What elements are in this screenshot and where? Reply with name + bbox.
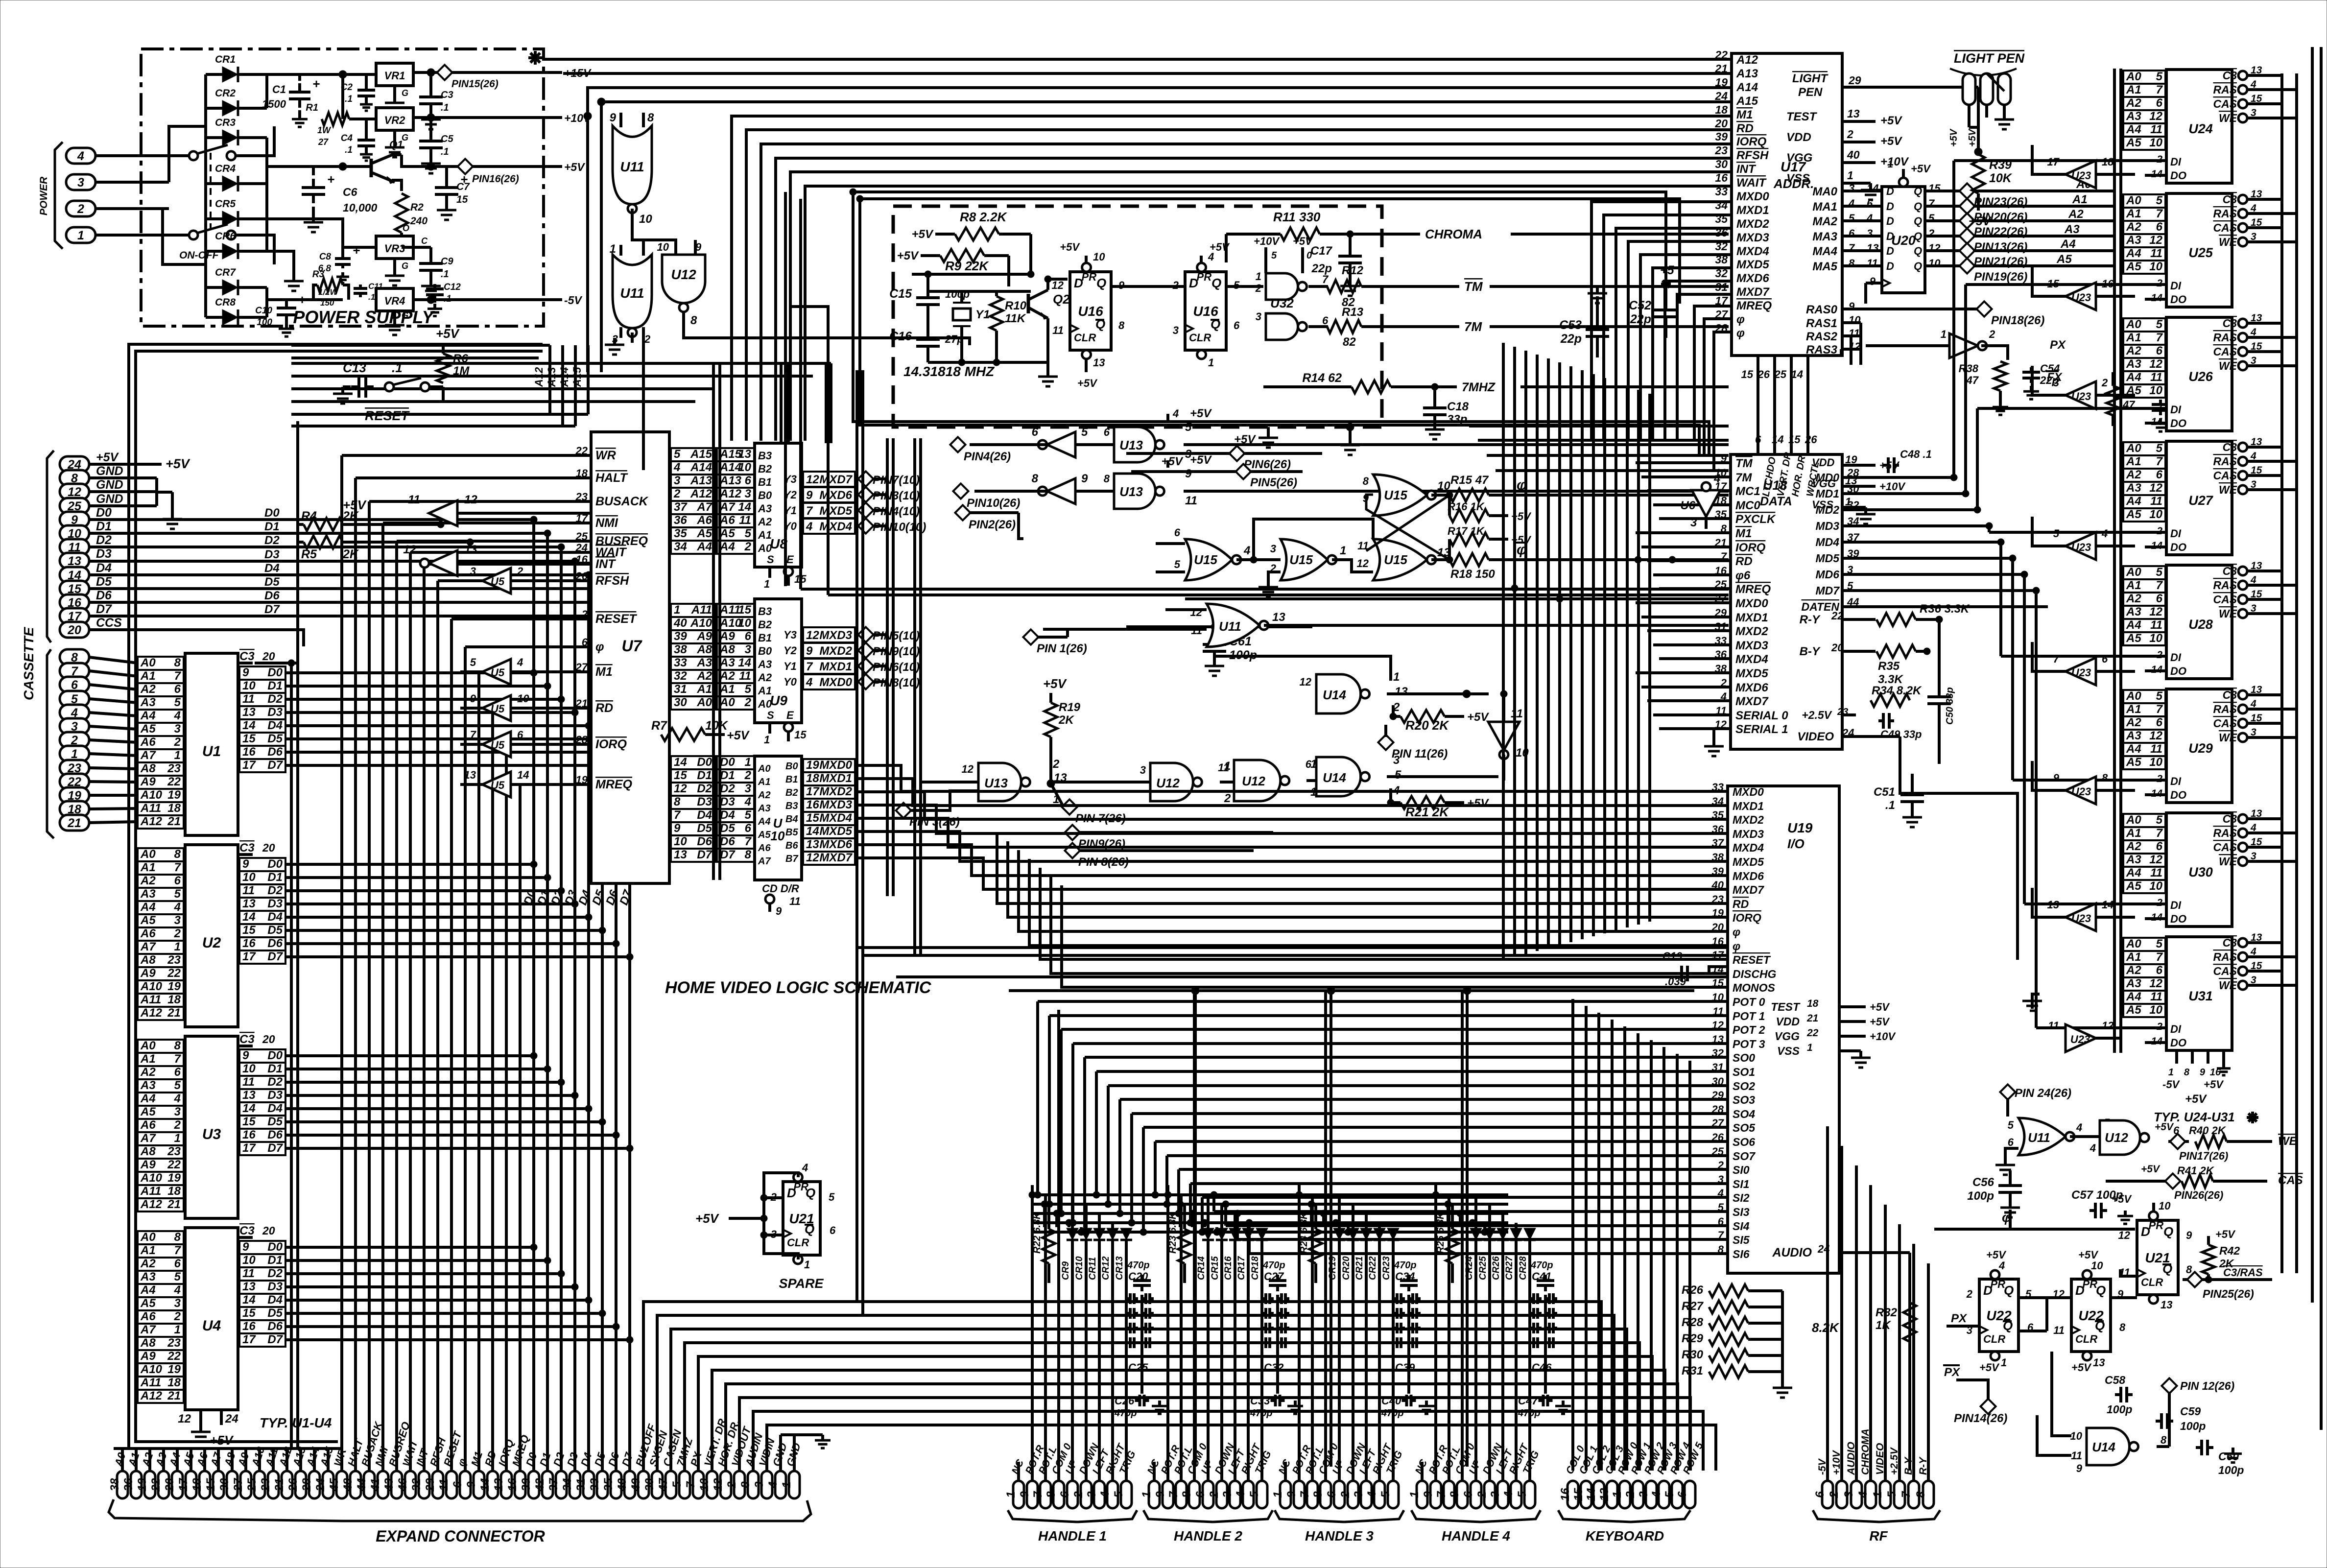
svg-text:VSS: VSS (1786, 172, 1810, 185)
svg-text:9: 9 (242, 1240, 249, 1254)
svg-text:15: 15 (242, 1307, 256, 1320)
svg-text:A5: A5 (719, 527, 735, 540)
svg-text:D: D (1886, 260, 1894, 272)
wire R8/R9 node to Q2 (1029, 234, 1032, 274)
junction U15 outputs (1446, 492, 1453, 499)
wire MXD0 out (855, 764, 887, 767)
wire expand pin D4 stub (587, 1457, 590, 1471)
wire U2 D2 to data bus (285, 889, 561, 892)
wire R11 to CHROMA (1320, 233, 1420, 236)
svg-text:13: 13 (242, 1089, 256, 1102)
svg-text:14: 14 (1867, 182, 1878, 194)
wire U23 output left (2032, 761, 2066, 790)
wire +5V U16 PR (1085, 256, 1088, 262)
svg-text:A5: A5 (2126, 756, 2141, 769)
svg-text:6: 6 (582, 636, 588, 648)
svg-text:16: 16 (242, 745, 256, 759)
wire Q2 collector to U16 (1048, 279, 1068, 290)
wire light pen leads (1968, 105, 1971, 127)
svg-text:R29: R29 (1682, 1332, 1704, 1345)
svg-text:TYP. U1-U4: TYP. U1-U4 (260, 1415, 332, 1430)
svg-text:1: 1 (1888, 159, 1893, 170)
svg-text:38: 38 (1715, 663, 1727, 675)
svg-text:1: 1 (1004, 1491, 1018, 1497)
svg-text:RAS3: RAS3 (1806, 343, 1838, 356)
wire MXD5 to U17 (1653, 268, 1732, 441)
ground VR3 (393, 259, 396, 269)
expand connector pin 16 (MREQ) (515, 1471, 525, 1498)
wire power pin to switch area (95, 154, 169, 157)
svg-text:2: 2 (174, 1310, 181, 1323)
wire U18 pin 38 feeder (1636, 671, 1731, 674)
svg-text:MD3: MD3 (1815, 520, 1839, 532)
wire U13b out right (1184, 490, 1729, 493)
wire PIN24 (2006, 1098, 2009, 1117)
wire U11 inputs (1165, 608, 1207, 611)
cassette pin 15 (D5) (60, 581, 89, 596)
U7 pin row 33 A3 (671, 657, 715, 670)
svg-text:1: 1 (1871, 1491, 1884, 1497)
svg-text:A3: A3 (140, 887, 156, 901)
svg-text:A1: A1 (758, 685, 772, 697)
svg-text:17: 17 (2047, 156, 2060, 168)
flip-flop U21 (right) (2137, 1220, 2178, 1295)
svg-text:A3: A3 (2064, 223, 2080, 236)
resistor R18 150 (1449, 553, 1489, 566)
svg-text:2: 2 (1847, 128, 1853, 141)
svg-text:3: 3 (745, 487, 752, 500)
U7 pin row 38 A8 (671, 643, 715, 657)
svg-text:U9: U9 (770, 693, 787, 708)
svg-text:I/O: I/O (1787, 836, 1805, 851)
svg-text:6: 6 (174, 874, 181, 887)
svg-text:18: 18 (1715, 103, 1728, 116)
svg-text:11: 11 (739, 514, 751, 527)
wire A0 stub to edge bus (136, 1045, 138, 1047)
svg-text:6: 6 (2156, 96, 2163, 110)
wire expand pin GND stub (779, 1457, 782, 1471)
svg-text:.1: .1 (441, 102, 449, 113)
custom data chip U18 (1731, 454, 1842, 749)
wire CR28 top lead (1528, 1228, 1531, 1232)
expand connector pin 38 (A0) (117, 1471, 128, 1498)
wire A0 cassette to U1 (89, 657, 138, 663)
svg-text:CLR: CLR (1983, 1333, 2005, 1345)
svg-text:A8: A8 (696, 643, 712, 656)
junction matrix column 15 (1432, 1191, 1439, 1198)
svg-text:C40: C40 (1381, 1395, 1401, 1407)
wire RF pin B-Y riser (1912, 1244, 1915, 1480)
wire CR5 leads (206, 217, 222, 220)
svg-text:3: 3 (674, 474, 681, 487)
svg-text:A2: A2 (2126, 716, 2141, 729)
handle 2 capacitor grid (1262, 1297, 1266, 1300)
U4 chip-select pin C3/20 (238, 1236, 253, 1239)
custom I/O chip U19 (1728, 786, 1839, 1273)
svg-text:D3: D3 (267, 1280, 283, 1293)
wire WE to rail (2247, 860, 2297, 863)
buffer input row A5 5 (717, 527, 754, 541)
wire A0 stub to edge bus (136, 853, 138, 856)
star small C52 (1661, 279, 1671, 289)
svg-text:9: 9 (806, 489, 813, 502)
svg-text:CLR: CLR (2141, 1276, 2163, 1288)
wire U18 pin 33 feeder (1653, 643, 1731, 646)
svg-text:DI: DI (2170, 651, 2182, 664)
resistor R10 11K (990, 296, 1003, 331)
svg-text:11: 11 (1511, 707, 1523, 720)
wire matrix column 10 (1298, 1195, 1301, 1227)
svg-text:U5: U5 (491, 666, 505, 679)
star TYP (2247, 1112, 2258, 1123)
svg-text:4: 4 (2076, 1121, 2082, 1134)
svg-text:MXD3: MXD3 (1735, 639, 1768, 652)
svg-text:Q: Q (1914, 245, 1922, 257)
wire U1 chip select net (255, 662, 298, 665)
svg-text:5: 5 (1663, 1491, 1676, 1498)
svg-text:+5V: +5V (436, 326, 460, 341)
pin marker PIN9(26) (1065, 825, 1080, 840)
svg-text:32: 32 (674, 669, 687, 683)
svg-text:12: 12 (2149, 357, 2162, 371)
expand connector pin 41 (NMI) (378, 1471, 388, 1498)
svg-text:8: 8 (1363, 475, 1369, 487)
svg-text:A0: A0 (2126, 442, 2141, 455)
svg-text:A12: A12 (533, 367, 545, 387)
wire expand VIDOUT vertical (739, 1398, 1690, 1471)
svg-text:+5: +5 (1660, 263, 1675, 277)
svg-text:8: 8 (174, 1039, 181, 1052)
svg-text:D7: D7 (267, 1141, 283, 1155)
svg-text:C9: C9 (441, 256, 453, 267)
svg-text:+5V: +5V (210, 1433, 235, 1448)
wire expand pin VERT. DR. stub (711, 1457, 713, 1471)
wire matrix column 19 (1483, 1227, 1486, 1232)
wire data bus D1 vertical to expand connector (546, 533, 549, 1471)
svg-text:R15 47: R15 47 (1450, 474, 1489, 487)
U1 address pin A2/6 (138, 683, 184, 696)
expand connector pin 4 (GND) (775, 1471, 786, 1498)
svg-text:470p: 470p (1530, 1260, 1553, 1271)
wire matrix column 2 (1055, 1213, 1058, 1227)
svg-text:U15: U15 (1289, 552, 1313, 567)
wire matrix column 7 (1191, 1213, 1194, 1227)
svg-text:15: 15 (204, 1478, 217, 1491)
resistor R13 82 (1327, 320, 1361, 333)
svg-text:4: 4 (806, 676, 812, 689)
svg-text:1: 1 (1140, 1491, 1153, 1497)
wire MXD4 out (855, 817, 887, 820)
U27 pin A0 5 (2123, 442, 2165, 455)
svg-text:A7: A7 (140, 1132, 156, 1145)
svg-text:RAS: RAS (2213, 331, 2237, 344)
svg-text:RAS: RAS (2213, 950, 2237, 963)
expand connector pin 12 (HOR. DR.) (720, 1471, 731, 1498)
wire A8 stub to edge bus (136, 959, 138, 962)
handle 4 connector pin 4 (RIGHT) (1511, 1481, 1521, 1508)
svg-text:A2: A2 (758, 671, 772, 684)
svg-text:+5V: +5V (1162, 455, 1184, 468)
wire A6 stub to edge bus (136, 1124, 138, 1127)
handle 2 pin risers (1153, 1462, 1156, 1480)
resistor R5 2K (304, 536, 343, 548)
U2 address pin A11/18 (138, 994, 184, 1007)
U4 address pin A5/3 (138, 1297, 184, 1310)
wire A4 line to RAM bus (1973, 249, 2114, 252)
wire R5 (298, 541, 304, 544)
wire CR23 top lead (1392, 1228, 1395, 1232)
svg-text:A12: A12 (140, 1006, 163, 1020)
svg-text:+5V: +5V (1911, 163, 1931, 175)
svg-text:1: 1 (1271, 1491, 1284, 1497)
capacitor C57 100p (2090, 1209, 2095, 1212)
svg-text:MXD3: MXD3 (819, 629, 852, 642)
U2 chip-select pin C3/20 (238, 853, 253, 856)
svg-text:A1: A1 (696, 683, 712, 696)
wire U5 input from U7 (511, 743, 591, 746)
svg-text:10: 10 (771, 829, 785, 843)
wire U23 input right (2096, 295, 2135, 298)
svg-text:D2: D2 (720, 782, 735, 795)
svg-text:4: 4 (673, 461, 680, 474)
U17 bottom pin 26 (1773, 356, 1776, 382)
wire expand pin GND stub (793, 1457, 796, 1471)
svg-text:5: 5 (174, 887, 181, 901)
svg-text:3: 3 (745, 782, 752, 795)
U4 address pin A7/1 (138, 1324, 184, 1337)
svg-text:A4: A4 (719, 540, 735, 553)
wire MD4 right (1842, 541, 2001, 544)
handle 4 connector pin 7 (POT.L) (1444, 1481, 1454, 1508)
wire U18 feeder 3 (1496, 469, 1729, 472)
svg-text:R7: R7 (651, 719, 667, 733)
wire U14a node up (1214, 656, 1391, 681)
svg-text:Q: Q (1914, 215, 1922, 227)
svg-text:HALT: HALT (595, 471, 629, 485)
svg-text:D3: D3 (720, 795, 735, 808)
wire MXD5 out (855, 830, 887, 833)
svg-text:MXD7: MXD7 (819, 473, 853, 486)
svg-text:6: 6 (2156, 468, 2163, 481)
expand connector pin 23 (A11) (268, 1471, 279, 1498)
svg-text:D2: D2 (267, 692, 283, 706)
cassette pin 18 (A11) (60, 801, 89, 817)
svg-text:R41 2K: R41 2K (2177, 1164, 2215, 1177)
handle 1 capacitor grid (1126, 1297, 1130, 1300)
wire reset net (429, 385, 443, 388)
svg-text:A9: A9 (140, 1158, 156, 1171)
svg-text:7: 7 (1031, 1491, 1045, 1498)
svg-text:5: 5 (174, 1270, 181, 1283)
wire cap grid stem (1276, 1295, 1279, 1394)
svg-text:WE: WE (2219, 607, 2237, 620)
svg-text:U31: U31 (2188, 989, 2213, 1003)
svg-text:13: 13 (806, 838, 819, 851)
junction D5 (599, 585, 606, 592)
U11 output pin 10 (631, 209, 634, 230)
MXD distribution verticals right (886, 438, 889, 896)
svg-text:12: 12 (2149, 605, 2162, 618)
svg-text:CAS: CAS (2213, 469, 2237, 482)
wire U17 bottom pins to U18 top (1757, 382, 1759, 454)
svg-text:PIN7(10): PIN7(10) (873, 474, 920, 487)
wire WE to rail (2247, 984, 2297, 987)
svg-text:DO: DO (2170, 913, 2186, 925)
svg-text:M1: M1 (1735, 527, 1752, 540)
cassette pin 20 (CCS) (60, 622, 89, 638)
wire A8 cassette to U1 (89, 768, 138, 769)
svg-text:25: 25 (1714, 578, 1727, 591)
wire matrix row 15 corner drop (1212, 1195, 1215, 1212)
expand connector pin 37 (D2) (556, 1471, 567, 1498)
wire central bus vertical 4 (1547, 358, 1550, 948)
U1 address pin A3/5 (138, 696, 184, 710)
svg-text:A3: A3 (2126, 481, 2141, 495)
junction VR2 out (427, 114, 435, 121)
svg-text:C48 .1: C48 .1 (1900, 448, 1932, 460)
svg-text:+: + (312, 76, 320, 91)
svg-text:27: 27 (232, 1477, 245, 1492)
wire matrix row 4 corner drop (1083, 1057, 1086, 1232)
capacitor C8 6.8 (341, 255, 344, 259)
svg-text:U13: U13 (1119, 438, 1143, 452)
U1 address pin A11/18 (138, 802, 184, 815)
svg-text:MD6: MD6 (1815, 568, 1839, 581)
svg-text:A0: A0 (140, 1039, 156, 1052)
wire CAS to rail (2247, 474, 2282, 477)
wire CR12 bottom lead (1111, 1240, 1114, 1480)
wire RAS to rail (2247, 460, 2297, 463)
svg-text:4: 4 (1848, 197, 1854, 210)
svg-text:4: 4 (174, 1283, 181, 1297)
svg-text:10: 10 (674, 835, 687, 848)
junction matrix column 4 (1078, 1229, 1085, 1235)
wire matrix row 18 corner drop (1248, 1223, 1251, 1254)
svg-text:U32: U32 (1270, 296, 1294, 310)
svg-text:4: 4 (766, 1481, 780, 1488)
svg-text:6: 6 (1849, 227, 1855, 239)
wire U19 matrix row 23 (1132, 1112, 1728, 1115)
junction matrix column 14 (1345, 1229, 1352, 1235)
wire MXD5 to bus (855, 509, 887, 512)
wire U23 input right (2096, 670, 2135, 673)
wire expand pin A13 stub (299, 1457, 302, 1471)
wire RF pin CHROMA riser (1869, 1185, 1872, 1480)
svg-text:15: 15 (2047, 278, 2060, 290)
svg-text:MXD0: MXD0 (819, 676, 852, 689)
wire A5 stub to edge bus (136, 728, 138, 731)
wire matrix column 3 (1068, 1223, 1070, 1227)
memory chip U27 (2166, 441, 2232, 555)
handle 3 connector pin 6 (UP) (1334, 1481, 1345, 1508)
svg-text:4: 4 (1502, 1491, 1515, 1498)
svg-text:5: 5 (1185, 421, 1192, 434)
svg-text:TEST: TEST (1771, 1000, 1801, 1013)
capacitor C16 27p (926, 331, 929, 339)
U4 address pin A12/21 (138, 1390, 184, 1403)
wire U5 input from U7 (511, 707, 591, 710)
pin marker PIN3(10) (858, 487, 873, 502)
svg-text:D4: D4 (267, 1102, 283, 1115)
svg-text:+5V: +5V (2078, 1249, 2099, 1261)
expand connector pin 47 (CASEN) (665, 1471, 676, 1498)
wire keyboard riser 2 (1597, 1013, 1600, 1471)
svg-text:WE: WE (2219, 236, 2237, 248)
svg-text:14: 14 (242, 1293, 256, 1307)
resistor R35 3.3K (1876, 645, 1916, 658)
wire expand D6 riser (615, 1449, 617, 1457)
junction matrix row 10 (1152, 1191, 1159, 1198)
svg-text:22: 22 (1714, 48, 1728, 61)
pin marker PIN4(10) (858, 502, 873, 518)
junction matrix column 17 (1457, 1210, 1464, 1217)
wire cassette data D1 to data bus (89, 532, 547, 535)
RF bracket (1813, 1510, 1879, 1522)
wire U19 matrix row 33 (1249, 1252, 1728, 1255)
light pen bulb 1 (1963, 73, 1975, 105)
svg-text:MXD2: MXD2 (819, 644, 852, 658)
svg-text:C41: C41 (1532, 1270, 1551, 1283)
NOR gate U11 (lower, vertical) (613, 255, 652, 328)
svg-text:D0: D0 (267, 1240, 283, 1254)
svg-text:14: 14 (1585, 1488, 1598, 1501)
wire WE to rail (2247, 240, 2297, 243)
wire U19 matrix row 25 (1155, 1140, 1728, 1143)
wire A6 stub to edge bus (136, 1315, 138, 1318)
wire U23 input right (2096, 789, 2135, 792)
svg-text:11: 11 (2150, 618, 2162, 632)
svg-text:38: 38 (674, 643, 687, 656)
U4 address pin A9/22 (138, 1350, 184, 1363)
cassette pin 23 (A8) (60, 760, 89, 776)
svg-text:φ: φ (1736, 313, 1745, 326)
wire keyboard riser 0 (1571, 999, 1574, 1471)
U26 pin A5 10 (2123, 384, 2165, 398)
resistor R19 2K (1045, 703, 1057, 737)
wire U19 matrix row 28 (1190, 1182, 1728, 1185)
U3 address pin A3/5 (138, 1079, 184, 1093)
U7 pin row 2 A12 (671, 488, 715, 501)
svg-text:.1: .1 (368, 292, 375, 302)
wire R20 +5V (1445, 715, 1464, 718)
U31 power pin 9 (2207, 1050, 2209, 1064)
capacitor C15 100p (926, 289, 929, 298)
wire R26 join (1748, 1289, 1782, 1292)
svg-text:A9: A9 (140, 775, 156, 788)
handle 4 connector pin 2 (DOWN) (1484, 1481, 1495, 1508)
wire expand IORQ to U7 pin (506, 743, 591, 746)
expand connector pin 34 (D3) (570, 1471, 580, 1498)
svg-text:GND: GND (96, 492, 123, 506)
svg-text:MXD1: MXD1 (819, 660, 852, 673)
svg-text:2: 2 (1339, 1491, 1352, 1498)
svg-text:100p: 100p (2180, 1420, 2206, 1432)
svg-text:2: 2 (1072, 1491, 1085, 1498)
capacitor C40 470p (1402, 1399, 1407, 1402)
wire R30 join (1748, 1354, 1782, 1357)
NAND gate U12 (third) (1234, 760, 1281, 801)
svg-text:A8: A8 (140, 1145, 156, 1158)
svg-text:PIN6(10): PIN6(10) (873, 661, 920, 674)
wire audio to RF (1908, 1342, 1911, 1471)
wire VIDEO out (1842, 735, 1900, 738)
svg-text:37: 37 (674, 500, 688, 514)
svg-text:IORQ: IORQ (1735, 541, 1766, 554)
svg-text:C3: C3 (2223, 689, 2237, 701)
svg-text:1: 1 (174, 1323, 181, 1336)
svg-text:A2: A2 (758, 516, 772, 528)
wire expand pin VIDOUT stub (738, 1457, 741, 1471)
